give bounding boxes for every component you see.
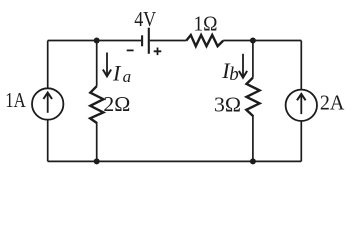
wire: 2-ohm branch top segment bbox=[96, 41, 98, 87]
wire: 3-ohm branch top segment bbox=[252, 41, 254, 78]
current source 1A (circle) bbox=[32, 88, 63, 119]
svg-text:4V: 4V bbox=[134, 7, 156, 31]
battery V1 4V source: negative (short) plate bbox=[141, 35, 143, 46]
wire: 2-ohm branch bottom segment bbox=[96, 123, 98, 161]
label Ib bbox=[221, 58, 239, 85]
current source 2A (circle) bbox=[286, 90, 317, 121]
svg-text:3Ω: 3Ω bbox=[214, 92, 241, 116]
junction node: bottom of 3-ohm branch bbox=[250, 158, 256, 164]
battery V1 4V source: positive (tall) plate bbox=[148, 28, 150, 54]
svg-text:1Ω: 1Ω bbox=[194, 12, 218, 36]
current arrow Ia (pointing down) bbox=[103, 53, 111, 77]
minus sign of battery bbox=[127, 49, 134, 51]
wire: 1-ohm resistor to top-right corner bbox=[223, 40, 301, 42]
wire: bottom rail bbox=[48, 160, 302, 162]
svg-text:1A: 1A bbox=[5, 88, 26, 112]
label 1A bbox=[5, 88, 26, 112]
wire: right rail lower segment bbox=[300, 121, 302, 161]
junction node: top of 3-ohm branch bbox=[250, 38, 256, 44]
resistor 3 ohm (vertical zigzag) bbox=[246, 78, 259, 117]
label 4V bbox=[134, 7, 156, 31]
label 2 ohm bbox=[103, 92, 130, 116]
wire: 3-ohm branch bottom segment bbox=[252, 116, 254, 161]
wire: right rail upper segment bbox=[300, 41, 302, 90]
resistor 2 ohm (vertical zigzag) bbox=[90, 86, 103, 123]
junction node: bottom of 2-ohm branch bbox=[94, 158, 100, 164]
resistor 1 ohm (horizontal zigzag) bbox=[186, 35, 223, 46]
wire: top-left horizontal segment (left corner to battery negative lead) bbox=[48, 40, 141, 42]
wire: left rail upper segment bbox=[47, 41, 49, 89]
current arrow Ib (pointing down) bbox=[239, 54, 247, 78]
svg-text:2A: 2A bbox=[320, 90, 345, 114]
svg-text:2Ω: 2Ω bbox=[103, 92, 130, 116]
arrow inside 1A source (pointing up) bbox=[43, 93, 52, 113]
junction node: top of 2-ohm branch bbox=[94, 38, 100, 44]
label 3 ohm bbox=[214, 92, 241, 116]
wire: left rail lower segment bbox=[47, 120, 49, 162]
plus sign of battery bbox=[154, 48, 162, 56]
label Ia bbox=[112, 60, 131, 86]
svg-text:b: b bbox=[229, 64, 239, 85]
svg-text:a: a bbox=[123, 67, 132, 86]
label 2A bbox=[320, 90, 345, 114]
label 1 ohm bbox=[194, 12, 218, 36]
wire: battery positive lead to 1-ohm resistor bbox=[150, 40, 187, 42]
arrow inside 2A source (pointing up) bbox=[297, 94, 306, 114]
